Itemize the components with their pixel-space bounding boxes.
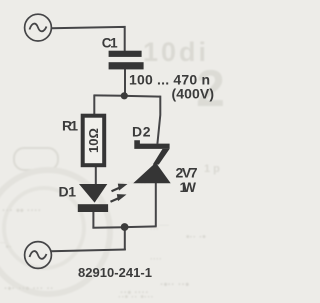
zener D2 cathode bar with ticks	[134, 140, 169, 149]
wire right branch down to D2	[157, 96, 160, 144]
svg-text:10Ω: 10Ω	[86, 128, 101, 153]
svg-text:··· •• ····: ··· •• ····	[2, 205, 41, 217]
wire top rail	[51, 27, 125, 52]
wire junction drop	[124, 227, 126, 250]
zener D2 anode triangle	[133, 163, 171, 184]
AC source bottom sine	[30, 251, 47, 259]
AC source bottom (circle)	[25, 242, 52, 269]
svg-text:1 p: 1 p	[204, 163, 220, 175]
svg-text:D2: D2	[132, 124, 151, 140]
svg-text:1W: 1W	[180, 179, 197, 195]
svg-text:R1: R1	[62, 118, 78, 134]
svg-text:·•·· ··•: ·•·· ··•	[160, 279, 189, 291]
wire D1 to connector	[92, 212, 94, 228]
svg-text:····: ····	[150, 254, 162, 264]
paper background	[0, 0, 224, 303]
wire C1 to node	[124, 69, 126, 96]
svg-text:82910-241-1: 82910-241-1	[78, 265, 152, 280]
resistor R1 box	[83, 116, 105, 166]
wire R1 to D1	[95, 167, 97, 185]
LED D1 emission arrows	[111, 184, 128, 202]
wire bottom rail	[51, 250, 126, 252]
capacitor C1 plates	[109, 51, 144, 70]
svg-text:C1: C1	[102, 35, 118, 50]
svg-text:D1: D1	[59, 184, 77, 200]
faint show-through ghosts	[0, 37, 225, 303]
wire D2 to connector	[155, 183, 157, 227]
svg-text:·•· ··• ··· ··: ·•· ··• ··· ··	[4, 283, 54, 295]
LED D1 triangle	[79, 184, 107, 203]
svg-text:¯•·: ¯•·	[0, 241, 12, 253]
AC source top (circle)	[25, 14, 52, 41]
LED D1 cathode bar	[78, 204, 108, 212]
AC source top sine	[30, 24, 47, 32]
svg-text:•·· ·•: •·· ·•	[186, 232, 206, 243]
zener D2 diagonal	[153, 149, 170, 165]
wire node horizontal	[94, 95, 160, 96]
node top junction	[121, 92, 128, 99]
node bottom junction	[121, 223, 129, 231]
svg-text:··• ····: ··• ····	[120, 287, 149, 299]
wire bottom connector	[92, 226, 156, 227]
svg-text:(400V): (400V)	[172, 86, 215, 102]
wire left branch down to R1	[93, 95, 95, 115]
